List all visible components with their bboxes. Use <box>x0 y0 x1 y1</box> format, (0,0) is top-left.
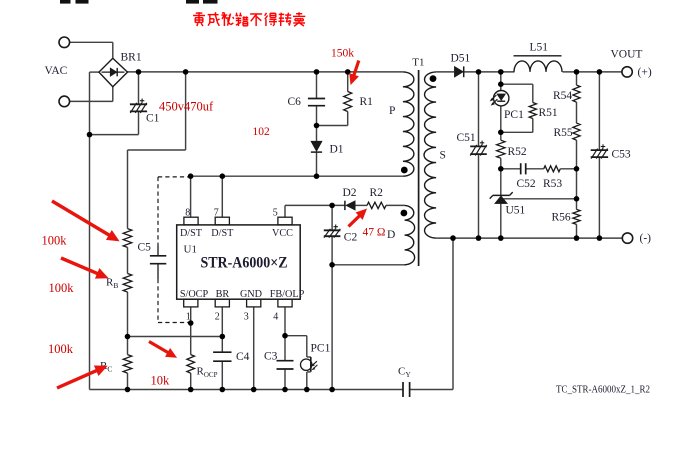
svg-text:C51: C51 <box>457 132 476 144</box>
svg-text:S: S <box>440 150 446 162</box>
svg-text:(-): (-) <box>640 233 652 245</box>
svg-text:GND: GND <box>240 289 262 300</box>
svg-text:1: 1 <box>186 312 191 323</box>
svg-text:L51: L51 <box>530 42 549 54</box>
svg-text:ROCP: ROCP <box>197 366 218 380</box>
svg-text:C4: C4 <box>236 351 250 363</box>
svg-text:VAC: VAC <box>45 65 68 77</box>
svg-text:D2: D2 <box>343 187 357 199</box>
svg-text:100k: 100k <box>42 234 68 248</box>
svg-text:8: 8 <box>185 207 190 218</box>
svg-text:PC1: PC1 <box>311 343 331 355</box>
svg-text:VCC: VCC <box>272 228 293 239</box>
svg-text:R52: R52 <box>508 146 527 158</box>
svg-text:47 Ω: 47 Ω <box>363 227 386 239</box>
svg-text:R2: R2 <box>370 187 384 199</box>
svg-text:7: 7 <box>214 207 219 218</box>
svg-text:D51: D51 <box>451 53 471 65</box>
svg-text:VOUT: VOUT <box>611 49 643 61</box>
svg-text:BR: BR <box>216 289 230 300</box>
svg-text:D: D <box>387 229 395 241</box>
svg-text:150k: 150k <box>331 48 354 60</box>
svg-text:D/ST: D/ST <box>211 228 234 239</box>
svg-text:C1: C1 <box>146 113 160 125</box>
svg-text:C6: C6 <box>288 96 302 108</box>
svg-text:C53: C53 <box>612 149 631 161</box>
svg-text:C2: C2 <box>344 232 358 244</box>
svg-text:RB: RB <box>106 277 118 291</box>
svg-text:R55: R55 <box>554 127 573 139</box>
svg-text:BR1: BR1 <box>121 52 142 64</box>
svg-text:R53: R53 <box>543 178 562 190</box>
svg-text:102: 102 <box>253 126 271 138</box>
svg-text:4: 4 <box>273 312 278 323</box>
svg-text:5: 5 <box>273 207 278 218</box>
svg-text:10k: 10k <box>151 374 171 388</box>
svg-text:C5: C5 <box>138 242 152 254</box>
svg-text:PC1: PC1 <box>504 109 524 121</box>
svg-text:P: P <box>389 105 395 117</box>
svg-text:100k: 100k <box>48 342 74 356</box>
svg-text:FB/OLP: FB/OLP <box>270 289 305 300</box>
svg-text:T1: T1 <box>412 57 424 69</box>
svg-text:S/OCP: S/OCP <box>180 289 209 300</box>
svg-text:D1: D1 <box>330 144 344 156</box>
svg-text:U51: U51 <box>506 205 526 217</box>
svg-text:CY: CY <box>398 366 411 380</box>
svg-text:C52: C52 <box>517 178 536 190</box>
svg-text:450v470uf: 450v470uf <box>159 100 214 114</box>
svg-text:TC_STR-A6000xZ_1_R2: TC_STR-A6000xZ_1_R2 <box>556 385 650 396</box>
svg-text:R1: R1 <box>360 96 374 108</box>
svg-text:R54: R54 <box>553 90 572 102</box>
svg-text:3: 3 <box>244 312 249 323</box>
svg-text:2: 2 <box>215 312 220 323</box>
svg-text:D/ST: D/ST <box>180 228 203 239</box>
svg-text:100k: 100k <box>49 281 75 295</box>
svg-text:(+): (+) <box>638 67 652 79</box>
svg-text:R51: R51 <box>539 107 558 119</box>
svg-text:STR-A6000×Z: STR-A6000×Z <box>201 255 288 272</box>
svg-text:R56: R56 <box>552 212 571 224</box>
svg-text:C3: C3 <box>264 351 278 363</box>
svg-text:U1: U1 <box>184 244 197 256</box>
